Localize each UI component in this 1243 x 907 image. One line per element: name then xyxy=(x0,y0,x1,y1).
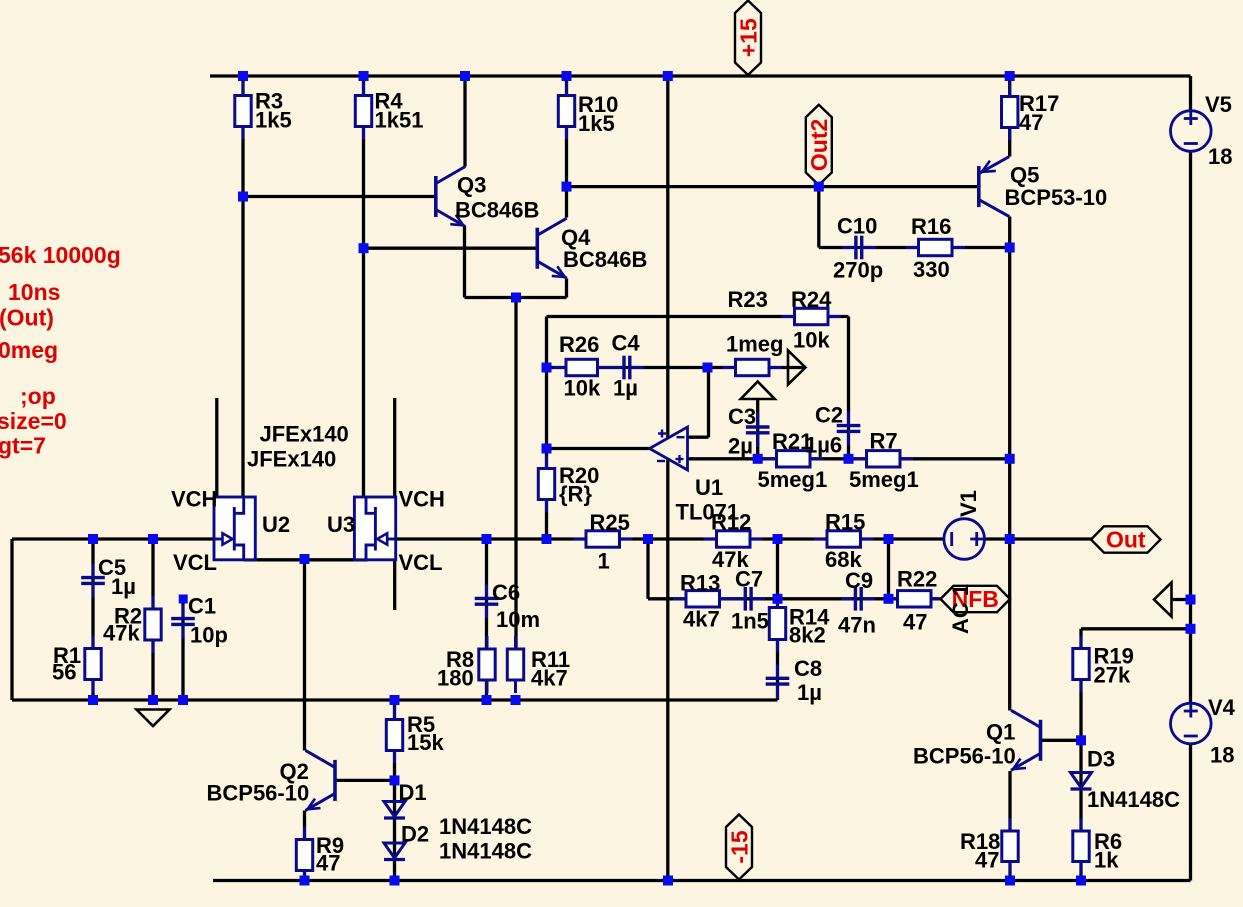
svg-text:BCP56-10: BCP56-10 xyxy=(913,744,1016,769)
svg-text:1meg: 1meg xyxy=(726,332,783,357)
svg-text:R13: R13 xyxy=(680,571,720,596)
svg-text:R7: R7 xyxy=(870,429,898,454)
svg-text:C4: C4 xyxy=(612,331,641,356)
svg-text:27k: 27k xyxy=(1094,663,1131,688)
svg-text:R24: R24 xyxy=(791,287,832,312)
svg-text:D3: D3 xyxy=(1087,747,1115,772)
svg-text:1N4148C: 1N4148C xyxy=(1087,787,1180,812)
svg-text:56: 56 xyxy=(52,660,76,685)
svg-text:4k7: 4k7 xyxy=(683,607,720,632)
svg-text:47: 47 xyxy=(903,610,927,635)
svg-text:1N4148C: 1N4148C xyxy=(439,814,532,839)
svg-text:BC846B: BC846B xyxy=(455,198,539,223)
svg-text:10p: 10p xyxy=(190,623,228,648)
svg-text:C10: C10 xyxy=(837,214,877,239)
svg-text:18: 18 xyxy=(1208,144,1232,169)
svg-text:47: 47 xyxy=(1019,110,1043,135)
svg-text:{R}: {R} xyxy=(559,482,592,507)
svg-text:1N4148C: 1N4148C xyxy=(439,839,532,864)
svg-text:2µ: 2µ xyxy=(728,434,753,459)
svg-text:R26: R26 xyxy=(559,332,599,357)
svg-text:1n5: 1n5 xyxy=(731,609,769,634)
svg-text:R23: R23 xyxy=(728,287,768,312)
svg-text:C6: C6 xyxy=(492,580,520,605)
svg-text:10k: 10k xyxy=(564,376,601,401)
svg-text:size=0: size=0 xyxy=(0,408,67,434)
svg-text:47: 47 xyxy=(975,848,999,873)
svg-text:Out: Out xyxy=(1106,527,1146,553)
svg-text:15k: 15k xyxy=(407,730,444,755)
svg-text:;op: ;op xyxy=(20,383,56,409)
svg-text:U2: U2 xyxy=(262,512,290,537)
svg-text:D1: D1 xyxy=(399,780,427,805)
svg-text:1k5: 1k5 xyxy=(578,111,615,136)
svg-text:VCL: VCL xyxy=(399,550,443,575)
svg-text:C9: C9 xyxy=(845,568,873,593)
svg-text:47k: 47k xyxy=(103,621,140,646)
svg-text:Q5: Q5 xyxy=(1010,163,1039,188)
svg-text:JFEx140: JFEx140 xyxy=(247,447,336,472)
svg-text:VCH: VCH xyxy=(399,487,445,512)
svg-text:270p: 270p xyxy=(833,258,883,283)
svg-text:330: 330 xyxy=(913,257,950,282)
svg-text:R21: R21 xyxy=(772,429,812,454)
svg-text:AC 1: AC 1 xyxy=(948,584,973,634)
svg-text:1µ: 1µ xyxy=(111,574,136,599)
svg-text:BC846B: BC846B xyxy=(563,247,647,272)
svg-text:1µ: 1µ xyxy=(797,680,822,705)
svg-text:VCL: VCL xyxy=(173,550,217,575)
svg-text:R15: R15 xyxy=(825,510,865,535)
svg-text:8k2: 8k2 xyxy=(789,623,826,648)
svg-text:18: 18 xyxy=(1210,743,1234,768)
svg-text:R22: R22 xyxy=(897,567,937,592)
svg-text:5meg1: 5meg1 xyxy=(849,467,919,492)
svg-text:R16: R16 xyxy=(911,214,951,239)
svg-text:VCH: VCH xyxy=(171,487,217,512)
svg-text:R25: R25 xyxy=(590,510,630,535)
svg-text:47n: 47n xyxy=(838,613,876,638)
svg-text:V5: V5 xyxy=(1205,92,1232,117)
svg-text:Out2: Out2 xyxy=(806,119,832,171)
svg-text:U3: U3 xyxy=(327,512,355,537)
svg-text:U1: U1 xyxy=(695,475,723,500)
svg-text:C1: C1 xyxy=(188,594,216,619)
svg-text:C8: C8 xyxy=(794,656,822,681)
svg-text:C2: C2 xyxy=(815,403,843,428)
svg-text:47: 47 xyxy=(316,851,340,876)
svg-text:BCP56-10: BCP56-10 xyxy=(207,781,310,806)
svg-text:JFEx140: JFEx140 xyxy=(260,422,349,447)
svg-text:180: 180 xyxy=(437,666,474,691)
svg-text:5meg1: 5meg1 xyxy=(758,467,828,492)
svg-text:4k7: 4k7 xyxy=(531,666,568,691)
svg-text:1: 1 xyxy=(598,549,610,574)
svg-text:D2: D2 xyxy=(401,822,429,847)
svg-text:Q1: Q1 xyxy=(986,720,1015,745)
svg-text:BCP53-10: BCP53-10 xyxy=(1005,185,1108,210)
svg-text:10m: 10m xyxy=(496,607,540,632)
svg-text:C7: C7 xyxy=(735,567,763,592)
svg-text:-15: -15 xyxy=(726,830,752,863)
svg-text:gt=7: gt=7 xyxy=(0,433,46,459)
svg-text:56k 10000g: 56k 10000g xyxy=(0,242,121,268)
svg-text:(Out): (Out) xyxy=(0,305,54,331)
svg-text:C3: C3 xyxy=(728,404,756,429)
svg-text:1k: 1k xyxy=(1094,848,1119,873)
svg-text:10ns: 10ns xyxy=(8,279,60,305)
svg-text:V1: V1 xyxy=(956,490,981,517)
svg-text:1k51: 1k51 xyxy=(375,108,424,133)
svg-text:10k: 10k xyxy=(793,328,830,353)
svg-text:1k5: 1k5 xyxy=(255,108,292,133)
svg-text:1µ: 1µ xyxy=(613,376,638,401)
svg-text:+15: +15 xyxy=(735,18,761,57)
svg-text:0meg: 0meg xyxy=(0,337,58,363)
svg-text:R12: R12 xyxy=(711,510,751,535)
svg-text:V4: V4 xyxy=(1208,695,1236,720)
svg-text:Q3: Q3 xyxy=(457,173,486,198)
